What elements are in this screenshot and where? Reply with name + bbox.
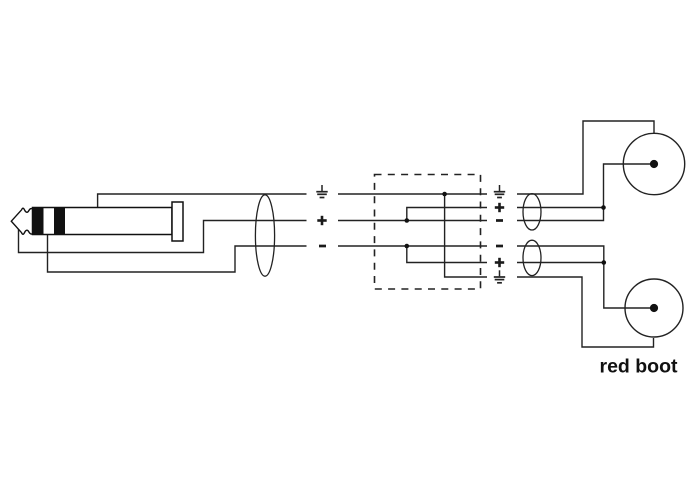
svg-text:red boot: red boot [600, 356, 678, 378]
